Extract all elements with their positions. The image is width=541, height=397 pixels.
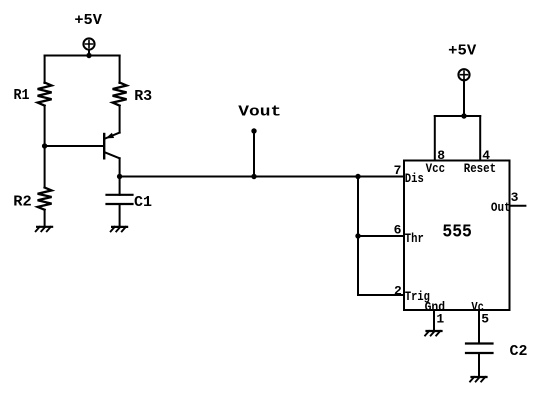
svg-text:Vc: Vc — [471, 299, 484, 314]
svg-text:R3: R3 — [134, 88, 152, 105]
wire: C1 to ground — [119, 204, 121, 227]
wire: Thr pin wire — [358, 235, 404, 237]
node: collector output node dot — [117, 174, 122, 179]
wire: node down to C1 — [119, 177, 121, 195]
svg-text:+5V: +5V — [74, 12, 102, 29]
wire: collector down to output node — [119, 158, 121, 176]
wire: R2 to ground — [44, 210, 46, 227]
node: junction dot at Thr branch — [355, 233, 360, 238]
svg-text:3: 3 — [511, 190, 519, 205]
pin 5 stub (Vc) — [478, 310, 480, 344]
wire: vertical from main wire to Thr and Trig — [357, 177, 359, 296]
power +5V supply symbol (right) — [458, 69, 469, 80]
wire: rail down to R3 — [119, 56, 121, 84]
svg-text:Out: Out — [491, 200, 511, 215]
wire: top-left horizontal rail — [45, 55, 120, 57]
wire: Trig pin wire — [358, 294, 404, 296]
capacitor C1 — [107, 195, 133, 204]
pin 3 stub (Out) — [510, 205, 526, 207]
resistor R2 — [38, 188, 52, 210]
resistor R3 — [113, 83, 127, 106]
svg-text:Vout: Vout — [238, 103, 281, 120]
wire: main output wire to 555 Dis pin — [120, 176, 404, 178]
svg-text:Reset: Reset — [464, 161, 497, 176]
capacitor C2 — [466, 344, 493, 354]
node Vout terminal dot — [251, 128, 256, 133]
svg-text:R1: R1 — [14, 87, 30, 104]
wire: R1 to base junction — [44, 106, 46, 146]
ground (pin 1) — [425, 331, 441, 336]
wire: base wire to transistor — [45, 145, 104, 147]
wire: R3 to transistor emitter — [119, 106, 121, 133]
svg-text:R2: R2 — [13, 193, 32, 210]
svg-text:2: 2 — [394, 283, 402, 298]
svg-text:C2: C2 — [510, 343, 528, 360]
svg-text:Thr: Thr — [405, 231, 424, 246]
svg-text:Vcc: Vcc — [426, 161, 446, 176]
svg-text:555: 555 — [442, 222, 472, 242]
pin 8 stub (Vcc) — [434, 116, 436, 161]
wire: top bus up to +5V — [463, 80, 465, 116]
pin 1 stub (Gnd) — [433, 310, 435, 331]
wire: Vcc-Reset top bus — [435, 115, 480, 117]
svg-text:6: 6 — [394, 223, 402, 238]
resistor R1 — [38, 83, 52, 106]
transistor Q1 (PNP) — [104, 133, 119, 159]
ground (below C1) — [111, 227, 127, 232]
power +5V supply symbol (left) — [83, 38, 94, 55]
svg-text:7: 7 — [394, 163, 402, 178]
wire: junction down to R2 — [44, 146, 46, 188]
ground (below C2) — [470, 377, 486, 382]
node: base junction dot — [42, 143, 47, 148]
node: junction dot at x358 on main wire — [355, 174, 360, 179]
ground (below R2) — [36, 227, 52, 232]
node: junction dot under left +5V — [86, 53, 91, 58]
op-amp U1: 555 IC body — [404, 161, 510, 311]
svg-text:Dis: Dis — [405, 171, 424, 186]
node: junction dot on top bus — [461, 113, 466, 118]
node: Vout junction dot on main wire — [251, 174, 256, 179]
wire: rail down to R1 — [44, 56, 46, 84]
wire: C2 to ground — [478, 353, 480, 377]
svg-text:+5V: +5V — [448, 43, 476, 60]
svg-text:C1: C1 — [134, 194, 152, 211]
svg-text:Gnd: Gnd — [425, 299, 446, 314]
wire: Vout stub — [253, 131, 255, 177]
pin 4 stub (Reset) — [479, 116, 481, 161]
